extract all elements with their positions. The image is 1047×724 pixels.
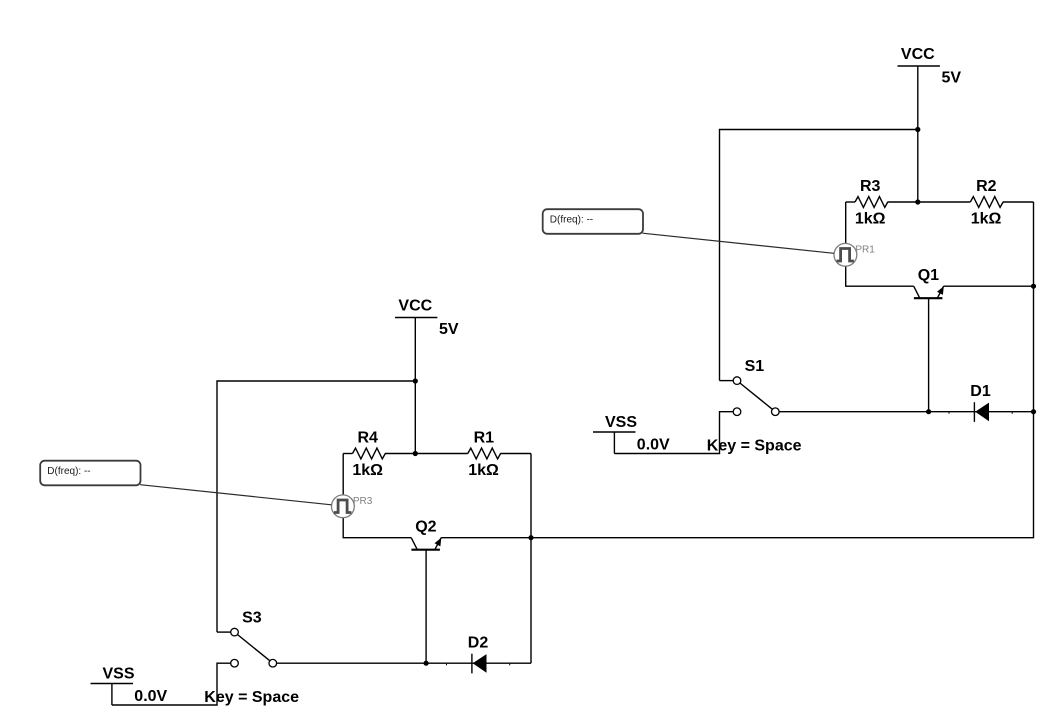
wire R2 left lead bbox=[918, 201, 971, 203]
wire right vertical rail bbox=[530, 454, 532, 664]
wire R1 right lead bbox=[500, 453, 531, 455]
wire VCC node to left rail bbox=[720, 130, 918, 381]
svg-text:PR1: PR1 bbox=[855, 245, 875, 256]
svg-text:Key = Space: Key = Space bbox=[204, 689, 299, 706]
switch S3 (SPDT, Key = Space) bbox=[204, 610, 299, 706]
junction VCC node bbox=[413, 378, 418, 383]
wire switch common to diode row bbox=[277, 662, 427, 664]
junction Q1 base node bbox=[926, 409, 931, 414]
junction D1 anode rail bbox=[1031, 409, 1036, 414]
wire probe to collector bbox=[846, 266, 914, 286]
wire VCC node to left rail bbox=[217, 381, 415, 632]
junction emitter rail bbox=[1031, 284, 1036, 289]
wire R4 left lead bbox=[343, 453, 352, 455]
resistor R1 1kOhm bbox=[468, 430, 501, 480]
svg-text:R3: R3 bbox=[860, 178, 881, 195]
svg-text:R1: R1 bbox=[474, 430, 495, 447]
transistor Q2 (NPN BJT, base down) bbox=[411, 518, 441, 663]
wire R4 right lead bbox=[385, 453, 415, 455]
wire R4 to probe bbox=[342, 454, 344, 496]
power VSS 0.0V bbox=[593, 414, 670, 454]
svg-text:PR3: PR3 bbox=[353, 496, 373, 507]
svg-text:1kΩ: 1kΩ bbox=[352, 462, 383, 479]
switch S1 (SPDT, Key = Space) bbox=[707, 358, 802, 454]
wire R3 left lead bbox=[846, 201, 855, 203]
diode D2 (with pin-end ticks) bbox=[426, 635, 531, 674]
svg-text:1kΩ: 1kΩ bbox=[971, 211, 1002, 228]
callout D(freq) readout for PR3 bbox=[40, 461, 331, 505]
probe PR1 (digital frequency probe) bbox=[834, 243, 875, 266]
wire Q1 emitter to rail bbox=[944, 285, 1034, 287]
resistor R3 1kOhm bbox=[855, 178, 888, 228]
svg-text:VSS: VSS bbox=[102, 665, 134, 682]
wire VCC node down to resistor junction bbox=[414, 381, 416, 454]
svg-text:D(freq): --: D(freq): -- bbox=[47, 466, 90, 477]
wire VCC node down to resistor junction bbox=[917, 130, 919, 203]
svg-text:S1: S1 bbox=[745, 358, 765, 375]
svg-text:1kΩ: 1kΩ bbox=[468, 462, 499, 479]
diode D1 (with pin-end ticks) bbox=[929, 383, 1034, 422]
junction Q2 base node bbox=[424, 661, 429, 666]
svg-text:VSS: VSS bbox=[605, 414, 637, 431]
svg-text:Q2: Q2 bbox=[415, 518, 436, 535]
wire switch common to diode row bbox=[779, 411, 929, 413]
resistor R2 1kOhm bbox=[970, 178, 1003, 228]
svg-text:1kΩ: 1kΩ bbox=[855, 211, 886, 228]
power VSS 0.0V bbox=[91, 665, 168, 705]
svg-text:D1: D1 bbox=[970, 383, 991, 400]
wire switch lower throw to VSS bbox=[112, 663, 231, 705]
power VCC 5V bbox=[898, 46, 962, 129]
wire R1 left lead bbox=[415, 453, 468, 455]
probe PR3 (digital frequency probe) bbox=[332, 495, 373, 518]
svg-text:VCC: VCC bbox=[901, 46, 935, 63]
junction emitter rail bbox=[528, 535, 533, 540]
callout D(freq) readout for PR1 bbox=[543, 209, 834, 253]
power VCC 5V bbox=[395, 298, 459, 381]
svg-text:S3: S3 bbox=[242, 610, 262, 627]
wire interconnect Q1 stage to Q2 emitter row bbox=[531, 412, 1034, 538]
svg-text:D(freq): --: D(freq): -- bbox=[550, 215, 593, 226]
svg-text:5V: 5V bbox=[942, 69, 962, 86]
junction resistor node bbox=[915, 199, 920, 204]
svg-text:0.0V: 0.0V bbox=[637, 437, 670, 454]
svg-text:R4: R4 bbox=[357, 430, 378, 447]
junction VCC node bbox=[915, 127, 920, 132]
transistor Q1 (NPN BJT, base down) bbox=[914, 267, 944, 412]
wire switch lower throw to VSS bbox=[614, 412, 733, 454]
wire right vertical rail bbox=[1033, 202, 1035, 412]
svg-text:0.0V: 0.0V bbox=[134, 688, 167, 705]
svg-text:Q1: Q1 bbox=[918, 267, 939, 284]
wire Q2 emitter to rail bbox=[441, 537, 531, 539]
svg-text:R2: R2 bbox=[976, 178, 997, 195]
svg-text:VCC: VCC bbox=[398, 298, 432, 315]
junction resistor node bbox=[413, 451, 418, 456]
wire probe to collector bbox=[343, 518, 411, 538]
wire R3 right lead bbox=[888, 201, 918, 203]
svg-text:Key = Space: Key = Space bbox=[707, 437, 802, 454]
wire R2 right lead bbox=[1003, 201, 1034, 203]
resistor R4 1kOhm bbox=[352, 430, 385, 480]
wire R3 to probe bbox=[845, 202, 847, 244]
svg-text:5V: 5V bbox=[439, 321, 459, 338]
svg-text:D2: D2 bbox=[468, 635, 489, 652]
